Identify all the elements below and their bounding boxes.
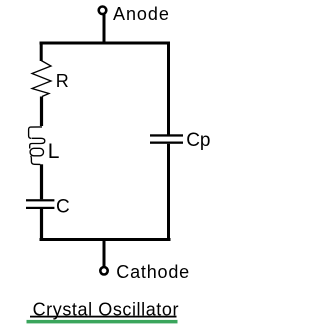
svg-text:L: L	[48, 140, 60, 163]
svg-text:R: R	[56, 71, 69, 91]
svg-text:Cp: Cp	[186, 130, 210, 151]
svg-text:Anode: Anode	[113, 4, 170, 24]
svg-text:Cathode: Cathode	[116, 262, 190, 282]
svg-text:C: C	[56, 197, 70, 218]
